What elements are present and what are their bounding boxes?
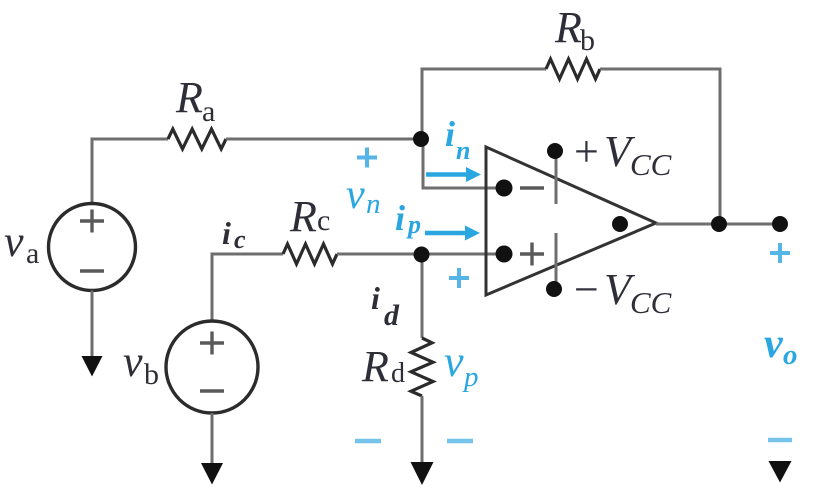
svg-text:a: a xyxy=(26,237,39,270)
pin dot: op-amp noninverting input xyxy=(496,246,513,263)
polarity plus for vo xyxy=(770,243,790,263)
svg-text:a: a xyxy=(202,95,215,128)
svg-text:v: v xyxy=(346,172,365,218)
svg-text:c: c xyxy=(234,225,246,254)
node dot: op-amp output xyxy=(612,216,628,232)
current arrow ip xyxy=(425,231,466,236)
svg-text:d: d xyxy=(391,358,405,389)
svg-text:v: v xyxy=(764,321,784,367)
svg-text:R: R xyxy=(361,342,389,391)
wire: feedback top right segment xyxy=(600,68,722,71)
svg-text:n: n xyxy=(456,136,470,165)
wire: inverting node down xyxy=(422,138,425,189)
polarity plus for vp xyxy=(449,268,469,288)
svg-text:d: d xyxy=(384,299,400,332)
svg-text:i: i xyxy=(371,280,380,316)
pin dot: op-amp inverting input xyxy=(496,180,513,197)
op-amp +Vcc stub xyxy=(555,152,558,204)
svg-text:v: v xyxy=(4,217,24,266)
svg-text:i: i xyxy=(222,215,231,251)
ground arrow at output xyxy=(769,461,792,483)
wire: to op-amp minus input xyxy=(422,187,505,190)
wire: feedback right vertical down to output junction xyxy=(719,68,722,225)
node dot: noninverting input node xyxy=(414,247,430,263)
resistor Ra xyxy=(168,129,226,149)
svg-text:i: i xyxy=(395,198,405,238)
node dot: output terminal xyxy=(772,216,788,232)
svg-text:v: v xyxy=(444,337,464,386)
polarity minus for vo xyxy=(768,438,792,443)
wire: Rd top lead from noninverting node xyxy=(421,253,424,339)
wire: vb bottom vertical xyxy=(211,413,214,466)
ground arrow for vb xyxy=(201,463,223,485)
current arrow in xyxy=(426,172,467,177)
wire: feedback top left segment xyxy=(421,68,547,71)
svg-text:b: b xyxy=(144,358,159,391)
op-amp U1 triangle xyxy=(486,147,656,295)
svg-text:o: o xyxy=(783,339,798,371)
wire: Rd bottom lead xyxy=(421,396,424,464)
op-amp -Vcc stub xyxy=(555,233,558,289)
voltage source Va xyxy=(49,204,136,291)
svg-text:i: i xyxy=(445,114,455,154)
ground arrow for va xyxy=(82,356,103,377)
op-amp minus pin mark xyxy=(520,186,544,189)
node dot -Vcc xyxy=(546,281,562,297)
svg-text:R: R xyxy=(554,3,582,52)
ground arrow for Rd xyxy=(411,462,434,485)
wire: Ra left lead xyxy=(91,138,169,141)
wire: Rc right lead to op-amp plus input xyxy=(337,253,504,256)
wire: va bottom vertical xyxy=(91,291,94,361)
svg-text:b: b xyxy=(580,24,595,57)
wire: Rc left lead from vb xyxy=(211,253,284,256)
wire: vb top vertical xyxy=(211,253,214,322)
junction dot: feedback/output xyxy=(711,216,727,232)
polarity minus for vp xyxy=(447,439,473,444)
wire: Ra right lead to inverting node xyxy=(226,138,422,141)
svg-text:R: R xyxy=(175,73,203,122)
svg-text:−: − xyxy=(574,265,599,314)
wire: va top vertical xyxy=(91,139,94,203)
wire: feedback left vertical xyxy=(421,69,424,139)
op-amp plus pin mark xyxy=(520,243,544,266)
svg-text:v: v xyxy=(123,337,143,386)
voltage source Vb xyxy=(166,321,258,413)
svg-text:CC: CC xyxy=(630,285,672,320)
polarity plus for vn xyxy=(357,148,377,168)
resistor Rc xyxy=(283,244,337,264)
resistor Rb xyxy=(546,59,600,79)
node dot: inverting input node xyxy=(413,131,429,147)
svg-text:CC: CC xyxy=(630,147,672,182)
resistor Rd xyxy=(411,338,433,396)
svg-text:R: R xyxy=(289,192,317,241)
svg-text:p: p xyxy=(406,210,421,239)
svg-text:c: c xyxy=(317,204,330,237)
wire: output xyxy=(656,223,780,226)
svg-text:p: p xyxy=(462,361,479,393)
polarity minus for vn xyxy=(355,439,381,444)
svg-text:n: n xyxy=(366,188,381,220)
svg-text:+: + xyxy=(574,127,599,176)
node dot +Vcc xyxy=(547,143,563,159)
